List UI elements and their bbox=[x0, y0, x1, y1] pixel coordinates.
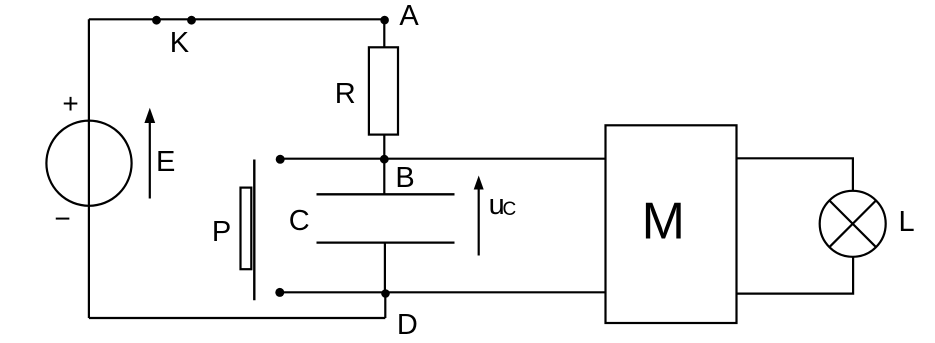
wire lamp bottom to M bbox=[737, 257, 854, 294]
wire left vertical through source bbox=[88, 19, 90, 318]
svg-text:+: + bbox=[62, 88, 78, 119]
svg-text:C: C bbox=[503, 199, 517, 220]
svg-text:P: P bbox=[212, 216, 231, 248]
node A bbox=[380, 16, 389, 25]
voltage source circle bbox=[46, 121, 131, 206]
svg-text:−: − bbox=[54, 203, 70, 234]
wire M to lamp top bbox=[737, 158, 853, 191]
wire rail B bbox=[280, 158, 606, 160]
svg-text:D: D bbox=[397, 309, 418, 341]
wire rail D bbox=[280, 291, 606, 293]
wire capacitor bottom plate to node D bbox=[384, 243, 386, 293]
capacitor C bottom plate bbox=[317, 241, 455, 243]
component P rectangle bbox=[241, 188, 252, 270]
wire node D stub down to bottom return bbox=[384, 292, 386, 318]
arrow E bbox=[144, 108, 155, 199]
svg-text:M: M bbox=[642, 193, 685, 251]
svg-text:K: K bbox=[170, 27, 190, 59]
junction dot rail D left bbox=[275, 288, 284, 297]
node B bbox=[380, 155, 389, 164]
junction dot rail B left bbox=[276, 155, 285, 164]
wire resistor to node B bbox=[383, 135, 385, 159]
switch K dots bbox=[152, 16, 161, 25]
svg-text:L: L bbox=[899, 206, 915, 238]
box M bbox=[606, 125, 737, 323]
svg-text:C: C bbox=[289, 205, 310, 237]
wire bottom return bbox=[89, 317, 385, 319]
lamp L circle bbox=[820, 191, 886, 257]
svg-text:E: E bbox=[156, 146, 175, 178]
node D bbox=[381, 289, 390, 298]
svg-text:R: R bbox=[335, 78, 356, 110]
capacitor C top plate bbox=[317, 193, 455, 195]
component P vertical bar bbox=[253, 160, 255, 301]
resistor R bbox=[369, 47, 398, 134]
wire node A to resistor bbox=[383, 19, 385, 47]
wire node B to capacitor top plate bbox=[383, 159, 385, 195]
svg-text:B: B bbox=[395, 162, 414, 194]
wire top from source to node A bbox=[89, 18, 384, 20]
svg-text:A: A bbox=[399, 0, 419, 32]
lamp L cross bbox=[829, 200, 876, 247]
arrow uC bbox=[474, 176, 484, 256]
